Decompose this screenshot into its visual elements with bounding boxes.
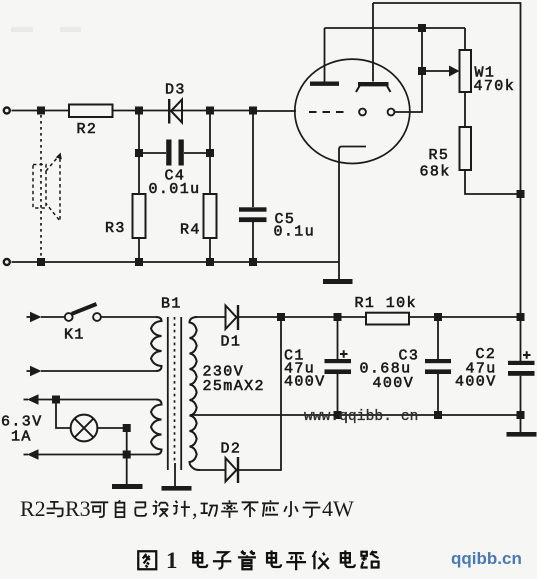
svg-text:B1: B1 xyxy=(161,296,182,313)
wire R3 bottom xyxy=(138,238,140,262)
node return C1 xyxy=(334,411,342,419)
arrow filament top xyxy=(24,399,29,401)
ground transformer shield xyxy=(162,486,192,491)
svg-text:0.1u: 0.1u xyxy=(274,223,316,240)
tube grid dashes xyxy=(309,111,348,113)
wire mains top to K1 xyxy=(41,316,65,318)
svg-text:D3: D3 xyxy=(165,81,186,98)
node C1 top xyxy=(334,313,342,321)
wire secondary top to D1 xyxy=(195,316,225,318)
resistor R2 xyxy=(69,105,113,118)
tube grid pin right xyxy=(388,109,395,116)
caption text row 2: 图 1 电子管电平仪电路 xyxy=(138,548,378,573)
svg-text:68k: 68k xyxy=(420,163,451,180)
potentiometer W1 xyxy=(460,50,472,92)
wire B+ bus xyxy=(281,316,366,318)
wire center tap return xyxy=(190,414,521,416)
svg-text:1A: 1A xyxy=(11,429,32,446)
diode D1 xyxy=(237,305,239,330)
wire rail to C2 xyxy=(520,317,522,361)
tube anode right xyxy=(358,82,389,86)
wire lamp to ground xyxy=(126,428,128,484)
arrow mains bottom xyxy=(27,370,32,372)
svg-text:D1: D1 xyxy=(221,334,242,351)
resistor R1 xyxy=(366,313,409,325)
wire R1 to rail xyxy=(409,316,521,318)
wire C3 top lead xyxy=(437,317,439,359)
wire vertical x139 xyxy=(138,111,140,194)
svg-text:400V: 400V xyxy=(373,375,415,392)
wire wiper arrow xyxy=(422,70,450,72)
tube cathode xyxy=(339,147,366,280)
speaker arrow xyxy=(56,153,62,160)
terminal input top xyxy=(4,108,10,114)
wire C2 bottom lead xyxy=(520,376,522,432)
diode D3 xyxy=(168,99,170,124)
node junction x139 top xyxy=(135,107,143,115)
svg-text:25mAX2: 25mAX2 xyxy=(203,378,265,395)
arrow mains top xyxy=(27,316,32,318)
svg-text:R2: R2 xyxy=(20,496,46,521)
svg-text:qqibb.cn: qqibb.cn xyxy=(451,549,522,568)
svg-text:R1 10k: R1 10k xyxy=(355,295,417,312)
svg-text:470k: 470k xyxy=(474,78,516,95)
node x422 top xyxy=(418,24,426,32)
wire plate supply top xyxy=(373,3,521,194)
wire lamp left xyxy=(56,400,71,429)
svg-text:,: , xyxy=(192,496,198,521)
node wiper xyxy=(418,67,426,75)
ground lamp xyxy=(112,484,143,489)
node bottom x139 xyxy=(135,258,143,266)
wire anode left up xyxy=(324,28,326,82)
svg-text:R3: R3 xyxy=(105,220,126,237)
speaker dashed symbol xyxy=(33,155,60,222)
wire to tube grid left xyxy=(253,110,296,112)
wire mains bottom to primary xyxy=(41,370,156,372)
node C4 left xyxy=(135,149,143,157)
resistor R5 xyxy=(460,127,472,170)
wire C1 bottom lead xyxy=(337,374,339,415)
capacitor C1 xyxy=(325,359,352,363)
switch K1 xyxy=(65,313,73,321)
caption text row 1: R2与R3可自己设计,功率不应小于4W xyxy=(20,496,354,521)
node filament bottom xyxy=(123,451,131,459)
wire filament top xyxy=(39,399,157,401)
wire D1 to node xyxy=(238,316,281,318)
capacitor C2 xyxy=(508,361,535,365)
capacitor C3 xyxy=(425,359,451,363)
svg-text:R4: R4 xyxy=(180,222,201,239)
node lamp top xyxy=(52,396,60,404)
svg-text:1: 1 xyxy=(166,548,178,573)
wire R5 bottom to rail xyxy=(465,170,521,194)
node return C3 xyxy=(434,411,442,419)
wire W1 top lead xyxy=(464,28,466,50)
terminal input bottom xyxy=(4,259,10,265)
wire grid net vertical xyxy=(395,28,423,112)
capacitor C4 xyxy=(166,140,171,166)
wire anode right up xyxy=(372,3,374,82)
wire C5 top xyxy=(252,111,254,207)
node bottom x210 xyxy=(206,258,214,266)
node junction x210 top xyxy=(206,107,214,115)
node bottom x253 xyxy=(249,258,257,266)
svg-text:0.01u: 0.01u xyxy=(149,181,201,198)
wire lamp right xyxy=(97,427,126,429)
wire secondary bottom to D2 xyxy=(200,469,225,471)
transformer core lines xyxy=(167,317,169,470)
svg-text:400V: 400V xyxy=(284,374,326,391)
svg-text:K1: K1 xyxy=(64,327,85,344)
resistor R4 xyxy=(204,194,217,238)
wire filament bottom xyxy=(39,454,157,456)
node lamp right xyxy=(123,424,131,432)
tube grid pin left xyxy=(359,109,366,116)
transformer filament winding xyxy=(151,400,162,455)
capacitor C5 xyxy=(239,207,267,211)
transformer shield dotted xyxy=(174,317,176,463)
arrow filament bottom xyxy=(24,454,29,456)
svg-text:D2: D2 xyxy=(221,441,242,458)
node junction x253 top xyxy=(249,107,257,115)
wire shield to ground xyxy=(174,463,176,486)
node rectifier output xyxy=(277,313,285,321)
svg-text:4W: 4W xyxy=(322,496,354,521)
svg-text:400V: 400V xyxy=(455,374,497,391)
smudge faint top-left xyxy=(11,27,81,32)
wire right rail mid xyxy=(520,194,522,317)
wire input top xyxy=(12,110,70,112)
node C3 top xyxy=(434,313,442,321)
ground main xyxy=(507,432,537,437)
svg-text:R3: R3 xyxy=(65,496,91,521)
wire D2 to node xyxy=(238,317,281,470)
wire C4 right xyxy=(184,152,210,154)
tube envelope V1 xyxy=(295,59,410,163)
node rail y317 xyxy=(517,313,525,321)
wire anode top bus xyxy=(325,27,466,29)
wire C1 top lead xyxy=(337,317,339,359)
transformer B1 primary winding xyxy=(151,317,162,371)
diode D2 xyxy=(237,457,239,483)
svg-text:R2: R2 xyxy=(77,121,98,138)
wire vertical x210 xyxy=(209,111,211,194)
svg-text:R5: R5 xyxy=(429,147,450,164)
node bottom x41 xyxy=(37,258,45,266)
node rail y194 xyxy=(517,190,525,198)
wire C4 left xyxy=(139,152,166,154)
wire C3 bottom lead xyxy=(437,374,439,415)
svg-text:www.qqibb. cn: www.qqibb. cn xyxy=(304,409,418,425)
node input top junction xyxy=(37,107,45,115)
wire ground bus top-section xyxy=(12,261,340,263)
wire C5 bottom xyxy=(252,222,254,262)
node return rail xyxy=(517,411,525,419)
ground cathode xyxy=(323,279,353,284)
resistor R3 xyxy=(133,194,146,238)
wire K1 to primary xyxy=(101,316,156,318)
wire R2 to D3 xyxy=(113,110,254,112)
wire dotted speaker link xyxy=(40,115,42,258)
node C4 right xyxy=(206,149,214,157)
tube anode left xyxy=(310,81,339,85)
lamp indicator xyxy=(71,415,98,442)
transformer secondary winding xyxy=(190,317,201,470)
wire W1 to R5 xyxy=(464,92,466,127)
wire R4 bottom xyxy=(209,238,211,262)
